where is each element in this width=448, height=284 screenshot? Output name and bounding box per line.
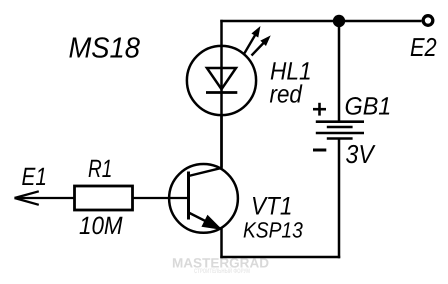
battery GB1: negative short plate (cell 2) [327, 137, 353, 140]
wire: bottom rail from emitter branch to battery branch [220, 256, 340, 259]
terminal E1 (arrow electrode) [15, 191, 39, 205]
svg-text:E2: E2 [410, 32, 437, 62]
svg-text:KSP13: KSP13 [243, 217, 303, 242]
wire: top rail from LED branch to E2 terminal [220, 20, 421, 23]
wire: resistor R1 to transistor base [133, 197, 189, 199]
wire: E1 arrow to resistor R1 [15, 197, 75, 199]
svg-text:3V: 3V [346, 139, 377, 169]
transistor VT1: emitter lead with arrow [189, 213, 222, 230]
wire: collector up to LED cathode [220, 115, 223, 169]
svg-text:10M: 10M [79, 212, 123, 240]
svg-text:red: red [270, 81, 303, 109]
svg-text:MS18: MS18 [69, 33, 141, 65]
LED HL1: envelope circle [187, 46, 256, 115]
svg-text:R1: R1 [88, 155, 112, 183]
wire: emitter down to bottom rail [220, 228, 223, 258]
battery GB1: positive long plate (cell 1) [316, 120, 364, 123]
svg-text:СТРОИТЕЛЬНЫЙ ФОРУМ: СТРОИТЕЛЬНЫЙ ФОРУМ [194, 267, 250, 275]
battery GB1: negative short plate (cell 1) [327, 126, 353, 129]
watermark MASTERGRAD [172, 256, 269, 276]
LED HL1: emission arrow 2 [252, 36, 270, 55]
battery GB1: plus sign [313, 103, 326, 116]
LED HL1: emission arrow 1 [244, 27, 260, 54]
battery GB1: minus sign [313, 149, 326, 152]
wire: LED branch top (rail to LED circle) [220, 20, 223, 46]
battery GB1: positive long plate (cell 2) [316, 132, 364, 135]
transistor VT1: envelope circle [169, 164, 238, 233]
resistor R1 (body) [75, 186, 133, 210]
LED HL1: cathode bar [206, 91, 237, 94]
svg-text:VT1: VT1 [251, 192, 292, 220]
node: junction of battery branch and top rail [333, 15, 345, 27]
wire: battery negative plate down to bottom rail [338, 139, 341, 259]
wire: battery branch from junction down to GB1 positive plate [338, 21, 341, 121]
svg-text:GB1: GB1 [345, 93, 392, 121]
transistor VT1: base bar [187, 172, 190, 220]
terminal E2 (open circle) [423, 16, 433, 26]
LED HL1: diode triangle [207, 68, 236, 89]
svg-text:E1: E1 [22, 163, 47, 191]
LED HL1: anode/cathode line through envelope [220, 46, 223, 168]
transistor VT1: collector lead [189, 168, 223, 176]
